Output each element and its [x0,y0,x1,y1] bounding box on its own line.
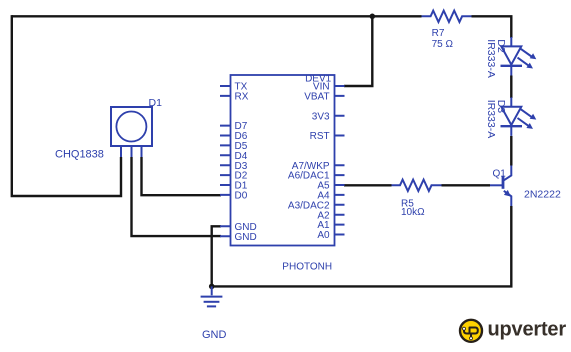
svg-text:IR333-A: IR333-A [485,100,497,139]
svg-text:IR333-A: IR333-A [485,39,497,78]
svg-text:3V3: 3V3 [312,111,330,122]
svg-text:2N2222: 2N2222 [524,188,561,200]
svg-text:RX: RX [235,92,249,103]
svg-text:CHQ1838: CHQ1838 [55,149,104,161]
svg-text:10kΩ: 10kΩ [401,207,425,218]
svg-text:VBAT: VBAT [304,92,329,103]
svg-text:Q1: Q1 [493,168,507,179]
svg-text:GND: GND [235,232,257,243]
svg-text:75 Ω: 75 Ω [432,39,454,50]
svg-text:R7: R7 [432,28,445,39]
svg-text:RST: RST [310,131,330,142]
svg-text:D1: D1 [149,97,163,109]
svg-text:GND: GND [202,329,227,341]
svg-text:upverter: upverter [488,319,567,341]
svg-text:A0: A0 [317,230,330,241]
svg-text:DEV1: DEV1 [305,73,332,84]
svg-text:PHOTONH: PHOTONH [282,262,332,273]
svg-text:D0: D0 [235,191,248,202]
